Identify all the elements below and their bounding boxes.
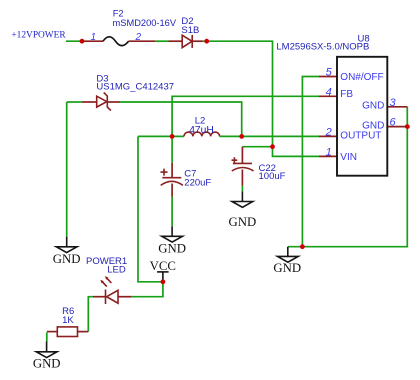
svg-text:47uH: 47uH — [189, 125, 214, 136]
svg-text:100uF: 100uF — [259, 171, 286, 182]
svg-text:2: 2 — [134, 32, 141, 43]
svg-text:+12VPOWER: +12VPOWER — [11, 31, 66, 41]
svg-text:1K: 1K — [62, 315, 74, 326]
svg-text:GND: GND — [158, 242, 186, 256]
svg-text:US1MG_C412437: US1MG_C412437 — [96, 82, 174, 93]
svg-text:220uF: 220uF — [184, 178, 211, 189]
svg-text:GND: GND — [33, 357, 61, 371]
svg-text:FB: FB — [340, 89, 353, 100]
svg-text:3: 3 — [390, 97, 397, 109]
svg-text:6: 6 — [390, 117, 397, 129]
svg-text:VCC: VCC — [150, 259, 176, 273]
svg-text:5: 5 — [326, 66, 333, 78]
svg-text:GND: GND — [362, 101, 384, 112]
svg-text:LM2596SX-5.0/NOPB: LM2596SX-5.0/NOPB — [276, 41, 369, 52]
svg-text:1: 1 — [326, 146, 332, 158]
svg-text:4: 4 — [326, 86, 332, 98]
svg-text:mSMD200-16V: mSMD200-16V — [113, 18, 177, 28]
svg-text:1: 1 — [90, 32, 96, 43]
svg-text:GND: GND — [362, 121, 384, 132]
svg-text:2: 2 — [325, 126, 332, 138]
svg-text:LED: LED — [107, 264, 126, 275]
svg-text:GND: GND — [273, 261, 301, 275]
svg-text:OUTPUT: OUTPUT — [340, 130, 381, 141]
svg-text:GND: GND — [53, 252, 81, 266]
svg-text:S1B: S1B — [181, 25, 199, 36]
svg-text:GND: GND — [229, 215, 257, 229]
svg-text:ON#/OFF: ON#/OFF — [340, 72, 383, 83]
svg-text:VIN: VIN — [340, 152, 357, 163]
